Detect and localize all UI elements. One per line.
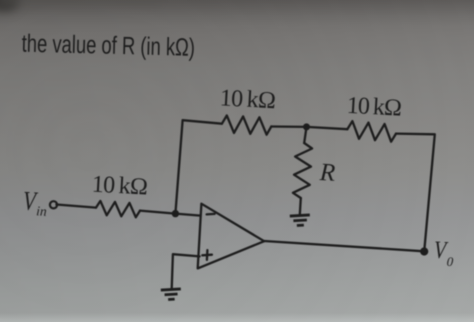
svg-text:the value of R (in kΩ): the value of R (in kΩ) xyxy=(21,29,195,62)
op-amp U1 triangle xyxy=(198,204,265,269)
wire Rf2 to top-right corner and down to output node xyxy=(396,134,435,252)
svg-text:10 kΩ: 10 kΩ xyxy=(346,93,402,122)
wire Vin to input resistor xyxy=(56,205,96,208)
wire node B down to resistor R xyxy=(304,127,306,143)
label Vin xyxy=(22,186,47,219)
wire input resistor to node A xyxy=(140,211,175,214)
op-amp plus sign xyxy=(202,250,212,260)
resistor Rf1 10k (feedback left) xyxy=(222,116,271,135)
resistor R (vertical) xyxy=(293,143,312,198)
svg-text:10 kΩ: 10 kΩ xyxy=(91,172,148,201)
resistor Rf2 10k (feedback right) xyxy=(347,121,396,142)
label V0 xyxy=(433,236,454,269)
wire Rf1 to node B xyxy=(271,125,306,128)
ground (below R) xyxy=(290,215,311,226)
svg-text:10 kΩ: 10 kΩ xyxy=(219,85,276,114)
op-amp minus sign xyxy=(207,213,215,216)
wire node A up to feedback corner xyxy=(175,120,182,213)
node A junction dot (inverting input node) xyxy=(172,210,179,217)
wire op-amp non-inverting input to ground xyxy=(172,254,200,289)
node B junction dot (R top) xyxy=(303,123,310,130)
node V0 output dot xyxy=(420,247,428,255)
svg-text:in: in xyxy=(36,203,48,219)
wire resistor R to ground xyxy=(300,198,301,215)
wire op-amp output to node V0 xyxy=(264,241,424,251)
resistor Rin 10k (input) xyxy=(96,201,140,217)
wire node B to resistor Rf2 xyxy=(307,127,348,129)
ground (op-amp + input) xyxy=(161,289,182,300)
svg-text:R: R xyxy=(318,159,336,187)
wire feedback corner to resistor Rf1 xyxy=(183,120,222,124)
wire node A to op-amp inverting input xyxy=(175,214,200,216)
svg-text:0: 0 xyxy=(446,254,454,269)
terminal Vin xyxy=(50,201,57,208)
